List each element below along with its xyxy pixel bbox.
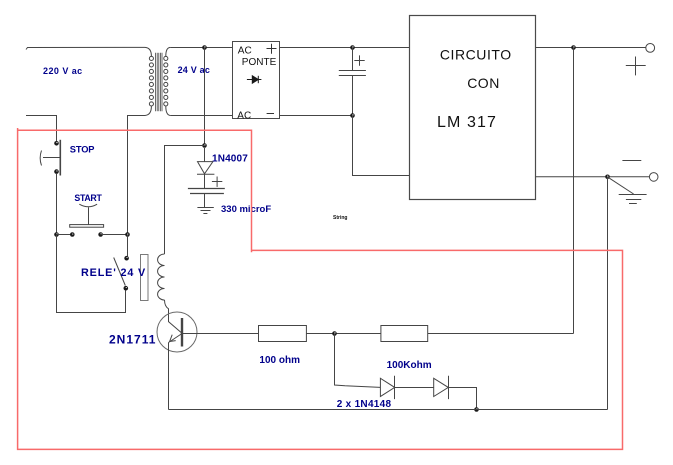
diode D3 1N4148 [434,376,449,399]
svg-text:PONTE: PONTE [242,57,277,68]
transformer T1 [145,47,170,115]
svg-text:100Kohm: 100Kohm [387,360,432,371]
node output + junction [571,45,576,50]
wire STOP to node A [56,174,58,235]
svg-text:String: String [333,215,347,221]
wire secondary top to bridge [170,47,232,49]
terminal - output [649,173,658,182]
node STOP bottom contact [54,169,59,174]
node relay contact top [124,256,129,261]
plus output symbol [626,57,646,76]
node B junction [125,232,130,237]
wire R2 to + rail [428,333,574,335]
wire bridge - output to cap [280,115,353,117]
bridge rectifier U2 AC PONTE [233,42,280,119]
wire LM output - [535,176,649,178]
pushbutton START (NO) [70,204,104,227]
transistor Q1 2N1711 [157,312,197,352]
node diode rail junction [474,407,479,412]
wire bridge + output to LM box [280,47,410,49]
diode glyph inside bridge [247,76,262,83]
polarity plus of C1 [354,55,364,65]
node START right contact [98,232,103,237]
svg-text:100 ohm: 100 ohm [259,355,300,366]
wire node A to START left contact [57,234,73,236]
wire D2 to D3 [395,387,434,389]
svg-text:1N4007: 1N4007 [212,154,248,165]
terminal + output [646,44,655,53]
node R1-R2 junction [332,331,337,336]
wire cap bottom to LM box [353,116,410,176]
node STOP top contact [54,141,59,146]
node START left contact [70,232,75,237]
relay contact K1 [114,258,126,286]
resistor R1 100 ohm [259,326,307,342]
relay coil body [141,255,149,301]
wire 24V node down [204,48,206,146]
capacitor C1 [339,48,366,116]
wire - rail down to bottom rail [607,177,609,410]
wire secondary bottom to bridge [170,115,232,117]
red boundary [18,128,623,449]
ground under C2 [197,208,213,214]
node 24V top junction [202,45,207,50]
svg-text:330 microF: 330 microF [221,204,271,215]
wire junction down to diode chain [335,334,381,388]
wire coil to transistor collector [165,300,183,333]
wire LM output + [535,47,646,49]
svg-text:AC: AC [237,111,251,122]
node relay contact bottom [124,286,129,291]
wire node A down and to relay contact [57,235,126,313]
regulator block U1 CIRCUITO CON LM 317 [410,16,536,200]
node filter cap bottom [350,113,355,118]
wire bottom emitter rail [169,409,608,411]
svg-text:LM 317: LM 317 [437,114,497,131]
wire C2 to ground [204,194,206,208]
node diode top junction [202,143,207,148]
svg-text:2 x 1N4148: 2 x 1N4148 [337,399,392,410]
wire 220V top line [26,47,145,49]
node filter cap top [350,45,355,50]
diode D1 1N4007 [197,148,214,188]
inductor L1 relay coil winding [158,254,165,300]
wire D3 down to bottom rail [448,388,476,410]
wire 220V bottom line to STOP [26,116,57,142]
svg-text:220 V ac: 220 V ac [43,66,83,76]
wire + rail down to 100Kohm [573,48,575,334]
diode D2 1N4148 [380,376,394,399]
wire node B down to relay contact top [127,235,129,257]
svg-text:2N1711: 2N1711 [109,333,156,347]
wire START right contact to node B [101,234,128,236]
resistor R2 100Kohm [381,326,428,342]
svg-text:START: START [74,193,102,203]
svg-text:RELE' 24 V: RELE' 24 V [81,267,146,279]
wire primary bottom [128,116,146,235]
svg-text:CIRCUITO: CIRCUITO [440,47,512,63]
svg-text:STOP: STOP [70,145,95,155]
wire junction to relay coil [165,146,205,255]
capacitor C2 330microF [188,189,225,194]
ground at output [607,177,646,204]
pushbutton STOP (NC) [40,140,60,176]
svg-text:24 V ac: 24 V ac [178,65,210,75]
wire base to R1 [182,333,259,335]
node output - junction [605,175,610,180]
svg-text:CON: CON [467,75,500,91]
node A junction [54,232,59,237]
minus output symbol [622,160,641,162]
polarity plus of C2 [212,177,222,187]
svg-text:AC: AC [238,45,252,56]
wire R1 to junction [306,333,381,335]
wire emitter down [168,343,170,410]
